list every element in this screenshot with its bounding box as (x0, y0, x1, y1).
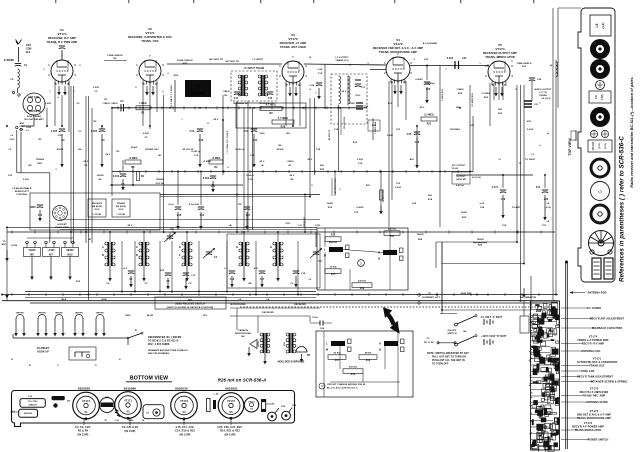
svg-text:POWER SWITCH: POWER SWITCH (588, 439, 609, 442)
svg-text:L: L (326, 343, 328, 346)
svg-text:1: 1 (136, 64, 138, 67)
transformer T3 (179, 242, 192, 282)
svg-text:C14: C14 (253, 139, 258, 142)
v5 top labels (423, 42, 532, 68)
svg-text:1: 1 (384, 62, 386, 65)
capacitor C27 (524, 101, 539, 107)
switch blade K (127, 330, 143, 339)
filament plug 3 (53, 313, 65, 337)
left feed wires (16, 126, 50, 242)
svg-text:R26: R26 (281, 126, 286, 129)
svg-text:3: 3 (74, 64, 76, 67)
network box 1 (317, 228, 408, 290)
output jack labels (452, 165, 481, 184)
filament bus wire (13, 334, 128, 345)
ant coil socket (23, 93, 45, 115)
svg-text:SHT BLK TR: SHT BLK TR (225, 61, 239, 63)
svg-text:C13: C13 (191, 275, 196, 277)
svg-text:W4: W4 (286, 132, 290, 135)
svg-text:0.002: 0.002 (23, 179, 30, 181)
svg-text:TRANS-MICROPHONE AMP: TRANS-MICROPHONE AMP (577, 417, 611, 420)
svg-text:M9: M9 (113, 58, 117, 60)
svg-text:M5: M5 (307, 355, 311, 357)
svg-text:R2: R2 (225, 95, 229, 97)
antenna pod arrows (520, 288, 537, 299)
svg-text:C22: C22 (424, 59, 429, 61)
svg-text:R16: R16 (331, 235, 336, 237)
svg-text:0.005: 0.005 (91, 131, 98, 133)
svg-text:TOP VIEW: TOP VIEW (568, 138, 572, 156)
svg-text:1 MEG: 1 MEG (222, 91, 230, 93)
svg-text:MICROPHONE: MICROPHONE (235, 333, 252, 335)
filament plug 5 (94, 313, 106, 337)
circled note 1 (358, 260, 365, 267)
svg-text:HOOK-UP: HOOK-UP (37, 352, 49, 354)
svg-text:W2: W2 (28, 165, 32, 167)
svg-text:M-2: M-2 (26, 52, 31, 54)
svg-text:4: 4 (309, 88, 311, 91)
switch M6 blade 2 (455, 335, 477, 346)
svg-text:RECEIVER OUTPUT AMP: RECEIVER OUTPUT AMP (483, 51, 517, 55)
svg-text:2: 2 (136, 74, 138, 77)
svg-text:R15: R15 (390, 236, 395, 238)
svg-text:(L4): (L4) (601, 23, 605, 29)
relay contact L-M 2 (326, 339, 351, 352)
chassis L3 box (11, 409, 38, 417)
svg-text:7: 7 (73, 91, 75, 93)
svg-text:C25: C25 (412, 203, 417, 205)
svg-text:COIL: COIL (315, 225, 321, 227)
resistor R21 (421, 115, 437, 126)
resistor R24 loop label (473, 239, 487, 247)
svg-text:R2 & R4: R2 & R4 (78, 430, 89, 433)
registration ticks (55, 0, 534, 3)
svg-text:C10: C10 (177, 215, 182, 217)
svg-text:6 V: 6 V (298, 225, 302, 227)
svg-text:(C12): (C12) (605, 143, 607, 149)
trans box M2 (112, 199, 130, 217)
bus dashed y307 (240, 306, 555, 308)
svg-text:ANT: ANT (26, 44, 32, 47)
svg-text:560: 560 (428, 195, 433, 197)
ring knob 1 (591, 159, 609, 177)
svg-text:5: 5 (511, 61, 513, 63)
svg-text:C28: C28 (537, 79, 542, 81)
W box top wires (27, 232, 73, 248)
svg-text:1500Ω: 1500Ω (96, 175, 103, 177)
svg-text:RECV’R -R-F AMP: RECV’R -R-F AMP (582, 343, 605, 346)
svg-text:1900Ω: 1900Ω (476, 239, 483, 241)
svg-text:V2: V2 (126, 411, 130, 414)
capacitor C16 (224, 268, 235, 288)
svg-text:45 V: 45 V (342, 90, 347, 93)
svg-text:0.0005: 0.0005 (356, 207, 364, 209)
tube V5 (488, 61, 510, 86)
svg-text:M/I/= 1,000 OHMS: M/I/= 1,000 OHMS (148, 343, 170, 346)
feedback wire loop 1 (436, 242, 517, 268)
capacitor C8 (160, 270, 171, 290)
svg-text:7: 7 (445, 69, 447, 71)
svg-text:0.1μf: 0.1μf (168, 204, 174, 206)
svg-text:TRANS, R-F PWR AMP: TRANS, R-F PWR AMP (47, 40, 78, 44)
resistor R17 upper (325, 267, 341, 277)
svg-text:7: 7 (292, 56, 294, 59)
tube V3 filament arrows (288, 87, 298, 97)
chassis caption 4 (217, 418, 242, 436)
svg-text:6: 6 (227, 167, 229, 169)
svg-text:6620: 6620 (129, 420, 135, 422)
svg-text:BLK: BLK (62, 299, 67, 301)
svg-text:C2: C2 (291, 283, 295, 285)
svg-text:B: B (29, 365, 31, 367)
bus y291 (25, 291, 316, 293)
svg-text:TRANS, OSC: TRANS, OSC (141, 39, 159, 43)
svg-text:YEL: YEL (203, 315, 208, 317)
svg-text:C: C (57, 365, 59, 367)
svg-text:V4: V4 (250, 408, 253, 411)
svg-text:1 TOTAL: 1 TOTAL (116, 213, 126, 216)
svg-text:680 KΩ: 680 KΩ (388, 229, 396, 231)
svg-text:C15: C15 (318, 73, 323, 75)
switch M3 box (155, 297, 226, 309)
antenna rod (565, 261, 568, 450)
svg-text:C23: C23 (396, 183, 401, 185)
scattered value labels (8, 103, 550, 367)
bottom view title (126, 376, 172, 382)
svg-text:560: 560 (498, 109, 503, 111)
svg-text:R4: R4 (79, 148, 83, 151)
capacitor C13b (183, 273, 196, 290)
scatter labels batch2 (9, 57, 551, 209)
svg-text:R18: R18 (428, 199, 433, 201)
resistor R19 lower (343, 367, 363, 377)
svg-text:C12: C12 (268, 98, 273, 100)
capacitor C30 (536, 187, 549, 221)
sensitivity label (13, 187, 32, 196)
svg-text:References in parentheses ( ): References in parentheses ( ) refer to S… (619, 136, 626, 282)
variable capacitor Cv2 (203, 248, 218, 259)
trimmer C29 chassis (282, 405, 297, 420)
svg-text:0.002: 0.002 (357, 159, 364, 161)
svg-text:C13: C13 (248, 179, 253, 181)
svg-text:L8 (L10): L8 (L10) (472, 177, 481, 179)
svg-text:VT171: VT171 (124, 399, 132, 402)
svg-text:M10: M10 (183, 63, 188, 65)
tube V5 label (483, 43, 517, 59)
svg-text:C(8): C(8) (105, 397, 110, 399)
socket pin ticks (105, 409, 146, 422)
svg-text:560Ω: 560Ω (327, 203, 333, 205)
chassis outline (12, 391, 295, 427)
svg-text:PHONES: PHONES (450, 129, 460, 131)
transformer T1 (102, 242, 115, 282)
svg-text:I-F INPUT: I-F INPUT (253, 59, 264, 61)
svg-text:B: B (102, 254, 104, 257)
svg-text:1: 1 (479, 63, 481, 65)
svg-text:R5: R5 (131, 167, 135, 169)
mic transformer B (283, 333, 296, 353)
transformer row wires (110, 196, 316, 295)
resistor R20 (379, 189, 385, 215)
strip connector wires (558, 8, 581, 141)
svg-text:L: L (324, 249, 326, 252)
svg-text:47000: 47000 (365, 352, 372, 355)
svg-text:1 MEG: 1 MEG (102, 103, 110, 105)
svg-text:45 V: 45 V (308, 158, 313, 161)
svg-text:1: 1 (48, 64, 50, 67)
on-off switch label (447, 330, 467, 335)
svg-text:R25: R25 (320, 169, 325, 171)
svg-text:(IN CUP): (IN CUP) (180, 434, 191, 437)
chassis caption 2 (122, 418, 139, 433)
tube V1 filament arrows (57, 86, 67, 96)
svg-text:(CURRENT) HOT: (CURRENT) HOT (422, 297, 440, 299)
T4 terminal (418, 292, 441, 304)
capacitor C26 (407, 132, 421, 169)
svg-text:5: 5 (143, 83, 145, 86)
capacitor C12 (267, 92, 273, 100)
svg-text:RECV’R ANT ADJUSTMENT: RECV’R ANT ADJUSTMENT (590, 318, 625, 321)
svg-text:2: 2 (279, 75, 281, 78)
resistor R13 (341, 108, 346, 135)
resistor R25 (332, 178, 337, 196)
svg-text:C4: C4 (142, 419, 146, 422)
svg-text:H: H (270, 246, 272, 249)
svg-text:AVC: AVC (410, 158, 415, 161)
capacitor C1 (4, 59, 28, 67)
svg-text:R1: R1 (141, 113, 145, 115)
bus y294 full (2, 294, 558, 296)
svg-text:5 KΩ: 5 KΩ (312, 317, 318, 319)
svg-text:REC: REC (38, 163, 43, 165)
svg-text:R3: R3 (117, 151, 121, 153)
svg-text:+103½ VOLT 'B' BATT: +103½ VOLT 'B' BATT (481, 334, 507, 338)
svg-text:3: 3 (511, 65, 513, 68)
ring knob 2 (591, 205, 609, 223)
svg-text:RECV’R TANK ADJUSTMENT: RECV’R TANK ADJUSTMENT (577, 376, 613, 379)
svg-text:PULL OUT ANT TO TURN ON: PULL OUT ANT TO TURN ON (432, 356, 466, 359)
part number 6620531 (225, 386, 238, 390)
svg-text:Q: Q (378, 258, 380, 261)
svg-text:L4 ADJUSTABLE: L4 ADJUSTABLE (13, 187, 32, 190)
resistor R18 lower (359, 352, 377, 363)
r26 italic note (218, 378, 267, 383)
svg-text:C4: C4 (120, 100, 124, 103)
left of sideview box (520, 300, 529, 333)
svg-text:K: K (135, 330, 137, 332)
svg-text:C...: C... (54, 43, 58, 45)
svg-text:μf: μf (547, 133, 549, 135)
svg-text:C20: C20 (364, 106, 369, 108)
svg-text:TRANS OSC: TRANS OSC (145, 148, 159, 151)
svg-text:CR: CR (67, 401, 71, 403)
svg-text:R-F CHOKE: R-F CHOKE (587, 307, 602, 310)
vertical wires right (325, 8, 558, 301)
svg-text:R1: R1 (105, 99, 109, 101)
trimmer pair (590, 130, 608, 137)
wire to switch (440, 242, 457, 314)
left bus arrows (2, 241, 9, 298)
svg-text:1: 1 (49, 91, 51, 93)
svg-text:C14, R10 & R13: C14, R10 & R13 (175, 430, 195, 433)
M11 label (527, 121, 532, 123)
svg-text:R2: R2 (94, 121, 98, 123)
svg-text:C24: C24 (281, 405, 286, 408)
svg-text:RECEIVE: RECEIVE (92, 203, 103, 205)
svg-text:A7: A7 (89, 238, 93, 241)
svg-text:D: D (136, 254, 138, 257)
capacitor C25 (415, 79, 431, 104)
svg-text:2700: 2700 (57, 135, 63, 137)
svg-text:(C11): (C11) (599, 143, 601, 149)
svg-text:(IN CUP): (IN CUP) (225, 434, 236, 437)
tube V5 filament arrows (494, 87, 504, 97)
svg-text:0.04: 0.04 (244, 130, 249, 133)
svg-text:C18: C18 (301, 273, 306, 275)
filament plug 1 (14, 313, 26, 337)
svg-text:A-F ALIGNED: A-F ALIGNED (423, 42, 438, 45)
component R26 chassis (262, 400, 275, 412)
svg-text:R19: R19 (498, 113, 503, 115)
svg-text:0.471μf: 0.471μf (456, 184, 464, 187)
capacitor C18v (310, 83, 323, 100)
svg-text:R14, R21 & R22: R14, R21 & R22 (220, 430, 240, 433)
radio side view internals (529, 301, 560, 452)
resistor W5 (24, 248, 41, 257)
top view strip outline (578, 8, 615, 282)
svg-text:C21: C21 (246, 215, 251, 217)
svg-text:C5: C5 (77, 103, 81, 105)
svg-text:470: 470 (254, 267, 259, 270)
svg-text:L8 (L10): L8 (L10) (542, 98, 551, 100)
svg-text:C28: C28 (270, 404, 275, 406)
svg-text:M1: M1 (158, 155, 162, 157)
network box 2 (316, 331, 413, 397)
tube socket V3 (171, 392, 198, 420)
svg-text:VT174: VT174 (495, 47, 505, 51)
svg-text:C5: C5 (145, 283, 149, 285)
capacitor C4 series (110, 100, 131, 112)
wire top bus V4-V5 (410, 65, 488, 67)
svg-text:VT174: VT174 (57, 32, 67, 36)
resistor network R9 R26 box (236, 103, 306, 128)
svg-text:560Ω R25: 560Ω R25 (461, 293, 473, 295)
capacitor C24 (310, 317, 332, 330)
svg-text:47000: 47000 (277, 148, 284, 151)
mic bus wires (230, 308, 320, 333)
svg-text:OUTPUT: OUTPUT (456, 176, 466, 178)
svg-text:6: 6 (539, 145, 541, 147)
svg-text:VT172: VT172 (227, 400, 235, 403)
svg-text:ANTENNA GUIDE: ANTENNA GUIDE (586, 401, 608, 404)
svg-text:T3: T3 (519, 163, 522, 165)
svg-text:TRANS: TRANS (156, 178, 164, 181)
svg-text:1: 1 (360, 261, 362, 265)
capacitor C17d (355, 80, 366, 89)
rotated subtitle text (630, 76, 634, 187)
tube socket V1 (73, 392, 100, 420)
svg-text:R6: R6 (85, 165, 89, 167)
svg-text:0.002 μf: 0.002 μf (192, 151, 201, 153)
capacitor C19d (356, 103, 369, 109)
chassis black dot (53, 403, 57, 407)
svg-text:1 TOTAL: 1 TOTAL (92, 213, 102, 216)
bus y175 right (456, 174, 533, 176)
svg-text:0.002 μf: 0.002 μf (236, 149, 245, 151)
bus y171 (112, 171, 473, 173)
svg-text:3.3 MEG R23: 3.3 MEG R23 (472, 92, 474, 106)
svg-text:1 MEG: 1 MEG (456, 89, 464, 91)
svg-text:0.004: 0.004 (447, 57, 454, 60)
svg-text:TUBE SHIELD: TUBE SHIELD (107, 55, 123, 57)
svg-text:TRANS-MODULATOR: TRANS-MODULATOR (575, 429, 601, 432)
svg-text:OSC: OSC (355, 95, 360, 97)
svg-text:ON-OFF: ON-OFF (448, 330, 458, 332)
svg-text:TRANS: TRANS (117, 202, 125, 205)
variable capacitor C4b (310, 248, 322, 263)
svg-text:C4: C4 (214, 256, 218, 259)
svg-text:45 V: 45 V (290, 174, 295, 177)
svg-text:4: 4 (511, 75, 513, 78)
svg-text:M11: M11 (527, 121, 532, 123)
svg-text:RED: RED (126, 315, 131, 317)
vertical wires left (7, 82, 315, 301)
svg-text:8: 8 (207, 123, 209, 125)
trimmer C24 chassis (268, 405, 286, 421)
capacitor C11b (189, 204, 205, 230)
i-f input transformer dashed box (231, 71, 277, 101)
transformer T2 (136, 242, 149, 282)
svg-text:R18: R18 (366, 360, 371, 362)
resistor R16 (325, 235, 341, 245)
part number 6620530 (175, 386, 188, 390)
socket circle (53, 206, 68, 221)
svg-text:C10 2700: C10 2700 (28, 401, 39, 403)
svg-text:7: 7 (181, 119, 183, 121)
tube V4 label (373, 38, 424, 54)
svg-text:+5 MEG: +5 MEG (203, 161, 212, 163)
grid cap V1 (54, 43, 65, 60)
svg-text:TO JACK: TO JACK (525, 158, 536, 161)
svg-text:R14: R14 (283, 341, 286, 346)
svg-text:0.004: 0.004 (527, 128, 534, 131)
svg-text:R7: R7 (289, 165, 293, 167)
svg-text:R4: R4 (99, 178, 103, 181)
svg-text:1 MEG R22: 1 MEG R22 (442, 88, 444, 101)
svg-text:R2: R2 (39, 139, 43, 141)
svg-text:1 MEG R24: 1 MEG R24 (374, 121, 377, 134)
svg-text:R13: R13 (388, 103, 393, 105)
svg-text:F: F (179, 254, 181, 257)
svg-text:C10: C10 (28, 396, 33, 398)
svg-text:E: E (119, 359, 121, 361)
svg-text:VT172: VT172 (393, 42, 403, 46)
battery cells (592, 258, 613, 279)
svg-text:W15: W15 (67, 254, 73, 257)
svg-text:L9 3 MA. R.F. CHOKE: L9 3 MA. R.F. CHOKE (170, 84, 173, 107)
svg-text:C1: C1 (24, 65, 28, 67)
svg-text:R21: R21 (427, 124, 432, 126)
svg-text:7: 7 (315, 93, 317, 95)
svg-text:0.471: 0.471 (492, 186, 499, 189)
I-F 455KC label box (185, 80, 211, 97)
svg-text:R10: R10 (76, 281, 81, 283)
svg-text:L3: L3 (26, 130, 29, 132)
svg-text:150K: 150K (349, 103, 355, 105)
svg-text:R24: R24 (418, 238, 423, 241)
svg-text:I-F OUTPUT: I-F OUTPUT (335, 57, 349, 59)
svg-text:C31: C31 (542, 225, 547, 227)
